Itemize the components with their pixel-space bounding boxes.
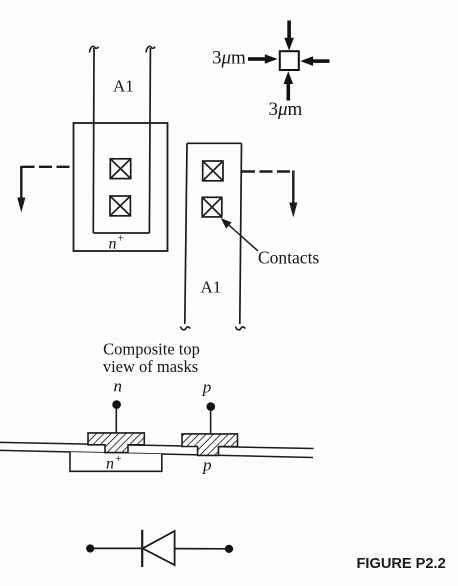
svg-text:n: n [114,377,123,396]
svg-text:n: n [109,236,117,253]
diode D1: triangle [143,531,175,565]
metal M1 (left, hatched) [88,433,144,453]
Al strip right: left edge [185,143,187,324]
wire: left Al strip left edge [92,48,95,233]
oxide top line [0,442,314,448]
n+ diffusion outline (left outer rectangle) [74,123,168,251]
contact C3 (right structure upper) [203,161,223,181]
terminal n: dot [112,400,121,409]
top arrow into square [284,21,294,51]
right arrow into square [300,56,329,66]
terminal p: lead wire [210,409,212,434]
silicon surface line [0,450,313,457]
Al strip right: right edge [240,143,242,324]
svg-text:+: + [115,453,122,465]
section arrow right [292,171,294,205]
terminal n: lead wire [115,407,117,433]
contact C1 (left structure upper) [110,159,130,179]
contact C4 (right structure lower) [202,197,222,217]
svg-text:Contacts: Contacts [258,248,319,268]
svg-text:Composite top: Composite top [103,340,200,359]
break squiggle bottom-right of right strip [236,327,246,330]
svg-text:+: + [118,233,125,245]
svg-text:A1: A1 [113,77,134,96]
n+ region box (cross-section) [70,452,162,471]
wire: left Al strip bottom edge [93,232,149,234]
contacts pointer arrow [226,223,258,252]
diode D1: cathode terminal dot [225,545,233,553]
svg-text:A1: A1 [201,278,222,297]
svg-text:FIGURE P2.2: FIGURE P2.2 [357,556,446,572]
contact C2 (left structure lower) [110,196,130,216]
svg-text:p: p [202,378,212,397]
left arrow into square [248,54,278,64]
break squiggle bottom-left of right strip [181,327,191,330]
svg-text:p: p [202,456,212,475]
break squiggle on left strip left line [90,46,99,52]
diode D1: cathode bar [141,530,143,567]
section line right (dashed) [242,170,294,172]
svg-text:view of masks: view of masks [103,357,198,376]
svg-text:3μm: 3μm [212,48,246,69]
svg-text:n: n [106,456,114,473]
break squiggle on left strip right line [146,46,155,52]
svg-text:3μm: 3μm [269,99,303,120]
diode D1: anode terminal dot [86,544,94,552]
terminal p: dot [207,402,216,411]
section line left (dashed) [22,166,74,168]
dimension square (3um contact) [280,51,299,70]
Al strip right: top edge [187,142,242,144]
wire: left Al strip right edge [149,48,150,233]
diode D1: anode lead [90,547,142,549]
section arrow left [20,166,22,199]
metal M2 (right, hatched) [182,434,238,456]
diode D1: cathode lead [175,548,229,550]
bottom arrow into square [284,71,294,100]
